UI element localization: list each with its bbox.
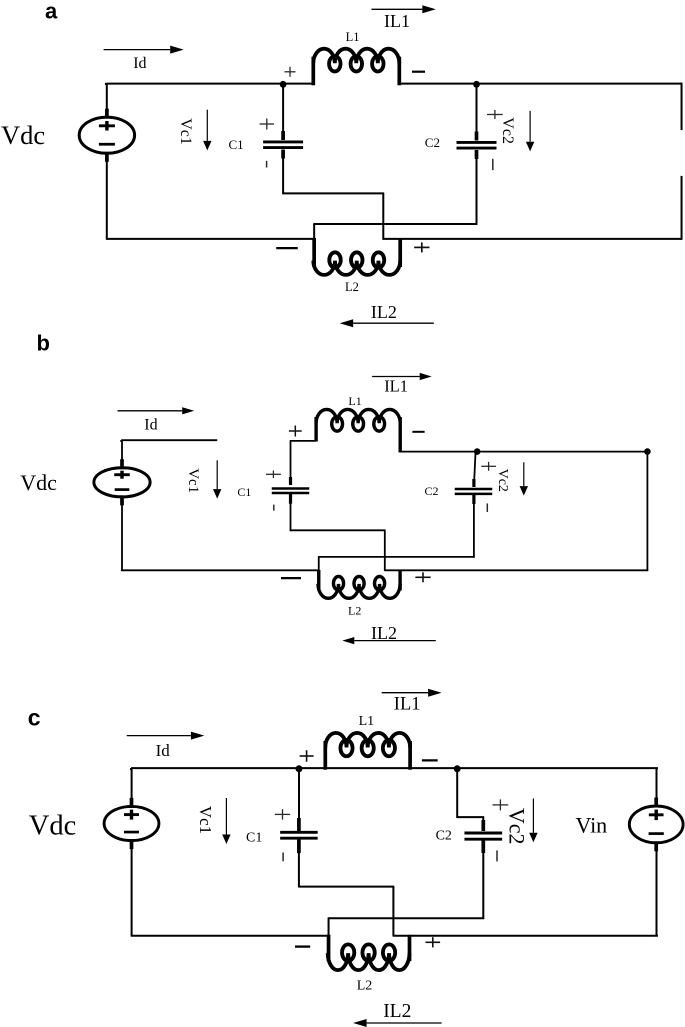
node dot C2 top (panel a) [473, 81, 480, 88]
current arrow Id (panel c) [127, 732, 205, 740]
node dot C1 top (panel a) [280, 81, 287, 88]
minus L1 right (panel a) [412, 71, 425, 73]
label L2 (panel a) [345, 280, 359, 294]
svg-text:L2: L2 [348, 604, 361, 618]
svg-text:L1: L1 [346, 30, 360, 44]
svg-text:Vc1: Vc1 [185, 468, 201, 493]
label L1 (panel c) [359, 714, 375, 729]
wire Vdc top (panel c) [131, 769, 133, 800]
minus L1 right (panel b) [412, 431, 424, 433]
inductor L1 (panel c) [325, 733, 410, 770]
arrow Vc1 down (panel c) [222, 798, 230, 844]
arrow Vc1 down (panel b) [213, 460, 221, 498]
voltage source Vin (panel c) [629, 798, 683, 852]
wire C2 bottom path (panel a) [313, 224, 477, 240]
wire right vertical lower (panel a) [681, 176, 683, 240]
label Vc2 rotated (panel a) [499, 117, 516, 144]
minus C1 below (panel b) [273, 505, 275, 511]
wire Vdc top (panel a) [106, 85, 108, 113]
wire C1 bottom path (panel a) [283, 193, 384, 239]
capacitor C1 (panel a) [263, 85, 303, 195]
svg-text:b: b [37, 330, 50, 355]
wire L1 right to corner (panel b) [400, 451, 648, 453]
label Vc2 rotated (panel c) [504, 808, 529, 845]
label Id (panel b) [144, 417, 157, 434]
plus L1 left (panel c) [300, 750, 314, 762]
minus C2 below (panel c) [496, 850, 498, 861]
arrow Vc1 down (panel a) [203, 110, 211, 151]
svg-text:C2: C2 [425, 484, 439, 498]
wire right vertical upper (panel a) [681, 83, 683, 130]
svg-text:L2: L2 [357, 979, 373, 994]
svg-text:Vdc: Vdc [20, 470, 57, 495]
svg-text:C1: C1 [246, 830, 262, 845]
wire bottom right (panel a) [383, 238, 682, 240]
label Vdc (panel c) [29, 810, 76, 841]
svg-text:IL1: IL1 [384, 11, 410, 31]
plus C2 (panel b) [481, 462, 496, 471]
plus C1 (panel a) [260, 118, 274, 129]
plus L1 left (panel a) [285, 67, 296, 77]
label IL1 (panel a) [384, 11, 410, 31]
minus L2 left (panel c) [295, 945, 310, 947]
current arrow IL1 (panel a) [372, 5, 436, 13]
panel label a [45, 0, 58, 24]
svg-text:C2: C2 [425, 135, 440, 150]
wire bottom left (panel b) [121, 569, 318, 571]
arrow Vc2 down (panel c) [529, 799, 537, 843]
capacitor C2 (panel a) [457, 85, 497, 225]
wire C2 bottom path (panel b) [318, 557, 475, 572]
svg-text:Vin: Vin [576, 813, 608, 838]
node dot C2 top (panel c) [454, 765, 461, 772]
svg-text:L2: L2 [345, 280, 359, 294]
panel label c [28, 705, 41, 731]
wire Vdc top (panel b) [121, 441, 123, 462]
svg-text:Id: Id [144, 417, 157, 434]
svg-text:c: c [28, 705, 41, 731]
inductor L2 (panel a) [313, 238, 400, 275]
svg-text:IL2: IL2 [371, 302, 397, 322]
capacitor C1 (panel b) [272, 477, 310, 531]
plus C1 (panel c) [275, 809, 290, 820]
wire L1 left to C1 (panel b) [290, 441, 316, 485]
svg-text:C2: C2 [436, 828, 452, 843]
current arrow IL2 (panel a) [340, 319, 434, 327]
svg-text:IL1: IL1 [394, 694, 421, 714]
wire C1 bottom path (panel b) [290, 530, 386, 571]
node dot right corner (panel b) [644, 448, 651, 455]
wire bottom left (panel a) [107, 238, 313, 240]
label Vc2 rotated (panel b) [495, 469, 510, 492]
label C1 (panel a) [229, 137, 244, 152]
label IL2 (panel a) [371, 302, 397, 322]
minus C1 below (panel c) [282, 853, 284, 862]
svg-text:C1: C1 [237, 485, 251, 499]
plus L2 right (panel a) [414, 242, 429, 252]
label Vdc (panel a) [1, 120, 45, 150]
label L2 (panel c) [357, 979, 373, 994]
minus C2 below (panel b) [486, 503, 488, 512]
label C2 (panel b) [425, 484, 439, 498]
capacitor C1 (panel c) [280, 769, 318, 888]
wire Vdc bottom (panel c) [131, 845, 133, 937]
plus L1 left (panel b) [289, 426, 302, 437]
label IL1 (panel b) [384, 377, 408, 396]
label Vc1 rotated (panel c) [196, 806, 215, 834]
wire Vin bottom (panel c) [656, 847, 658, 937]
wire top left (panel a) [106, 83, 283, 85]
wire bottom right (panel c) [393, 935, 658, 937]
label C1 (panel b) [237, 485, 251, 499]
inductor L1 (panel a) [313, 49, 399, 86]
label IL2 (panel b) [371, 623, 397, 643]
plus L2 right (panel b) [415, 572, 430, 582]
wire Vdc bottom (panel b) [121, 502, 123, 571]
wire right vertical (panel b) [646, 452, 648, 571]
label Id (panel a) [133, 55, 146, 72]
wire Vin top (panel c) [656, 769, 658, 801]
label Vc1 rotated (panel a) [177, 118, 194, 145]
svg-text:Vc2: Vc2 [495, 469, 510, 492]
wire top (panel c) [131, 768, 658, 770]
plus L2 right (panel c) [426, 937, 441, 947]
inductor L1 (panel b) [316, 409, 400, 452]
capacitor C2 (panel b) [455, 453, 493, 558]
svg-text:IL2: IL2 [383, 1001, 411, 1022]
svg-text:L1: L1 [359, 714, 375, 729]
capacitor C2 (panel c) [456, 769, 502, 919]
label Id (panel c) [156, 741, 171, 760]
svg-text:IL2: IL2 [371, 623, 397, 643]
label Vdc (panel b) [20, 470, 57, 495]
label Vc1 rotated (panel b) [185, 468, 201, 493]
label L2 (panel b) [348, 604, 361, 618]
minus C2 below (panel a) [492, 159, 494, 170]
panel label b [37, 330, 50, 355]
label Vin (panel c) [576, 813, 608, 838]
minus L1 right (panel c) [422, 759, 438, 761]
label L1 (panel b) [348, 394, 361, 408]
svg-text:Vc2: Vc2 [504, 808, 529, 845]
voltage source Vdc (panel b) [94, 459, 150, 505]
inductor L2 (panel b) [318, 570, 400, 598]
wire C1 bottom path (panel c) [299, 887, 394, 937]
current arrow IL1 (panel b) [372, 373, 432, 380]
label C2 (panel a) [425, 135, 440, 150]
wire Vdc bottom (panel a) [106, 158, 108, 240]
wire top open (panel b) [121, 440, 217, 442]
wire bottom left (panel c) [131, 935, 328, 937]
current arrow IL2 (panel c) [353, 1019, 442, 1027]
label C2 (panel c) [436, 828, 452, 843]
node dot C2 top (panel b) [474, 448, 481, 455]
current arrow Id (panel b) [118, 407, 195, 414]
svg-text:Vc1: Vc1 [196, 806, 215, 834]
inductor L2 (panel c) [328, 935, 410, 970]
arrow Vc2 down (panel b) [520, 462, 528, 495]
svg-text:IL1: IL1 [384, 377, 408, 396]
current arrow Id (panel a) [104, 46, 184, 54]
wire bottom right (panel b) [385, 569, 648, 571]
current arrow IL1 (panel c) [382, 689, 442, 697]
arrow Vc2 down (panel a) [526, 111, 534, 151]
svg-text:Id: Id [133, 55, 146, 72]
minus L2 left (panel b) [281, 577, 301, 579]
minus C1 below (panel a) [266, 161, 268, 168]
svg-text:Vdc: Vdc [29, 810, 76, 841]
plus C2 (panel c) [493, 799, 509, 810]
label L1 (panel a) [346, 30, 360, 44]
voltage source Vdc (panel a) [79, 109, 134, 162]
svg-text:L1: L1 [348, 394, 361, 408]
svg-text:a: a [45, 0, 58, 24]
svg-text:Vdc: Vdc [1, 120, 45, 150]
minus L2 left (panel a) [276, 247, 298, 249]
label IL1 (panel c) [394, 694, 421, 714]
label IL2 (panel c) [383, 1001, 411, 1022]
svg-text:Id: Id [156, 741, 171, 760]
node dot C1 top (panel c) [296, 765, 303, 772]
wire C2 bottom path (panel c) [328, 918, 484, 937]
wire L1 to right corner (panel a) [399, 83, 682, 85]
svg-text:C1: C1 [229, 137, 244, 152]
current arrow IL2 (panel b) [342, 637, 436, 644]
plus C2 (panel a) [487, 110, 503, 119]
svg-text:Vc2: Vc2 [499, 117, 516, 144]
plus C1 (panel b) [266, 471, 281, 479]
svg-text:Vc1: Vc1 [177, 118, 194, 145]
voltage source Vdc (panel c) [104, 798, 159, 849]
wire node to L1 (panel a) [283, 83, 313, 85]
label C1 (panel c) [246, 830, 262, 845]
